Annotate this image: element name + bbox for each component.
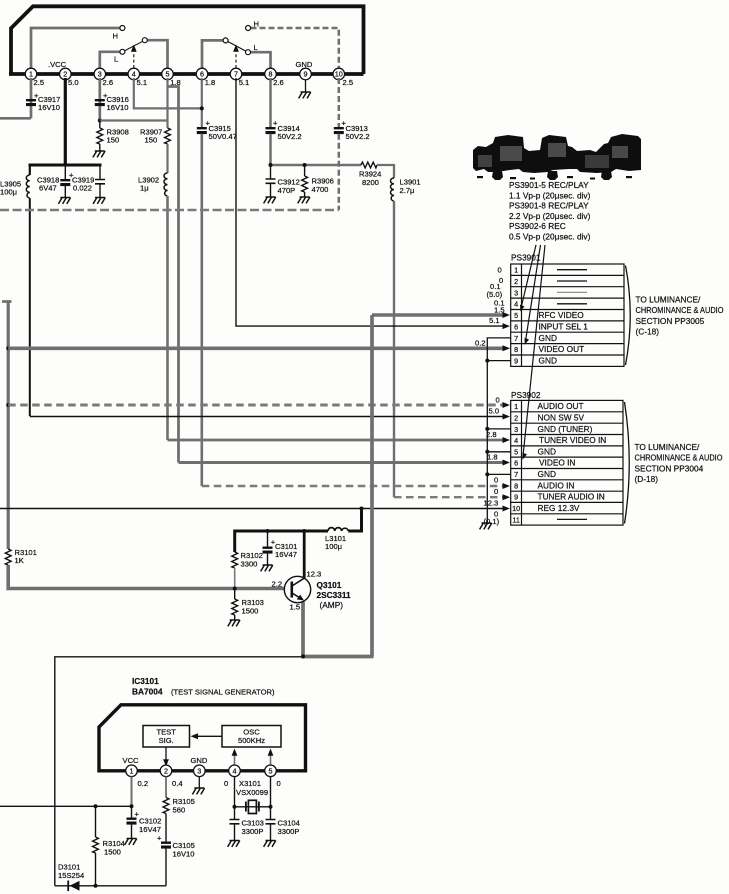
- svg-text:REG 12.3V: REG 12.3V: [538, 503, 580, 513]
- svg-text:12.3: 12.3: [307, 570, 322, 579]
- switch S1 pivot contact: [142, 38, 147, 43]
- wire: C3918/C3919 top rail (thick): [29, 164, 102, 167]
- wire: C3914 to y165 rail (grey): [269, 134, 272, 165]
- svg-text:VIDEO IN: VIDEO IN: [539, 458, 575, 468]
- svg-text:0: 0: [494, 476, 498, 485]
- wire: pin7 net drop and run to PS3901 pin6: [236, 78, 504, 326]
- pin 10: [333, 68, 345, 80]
- svg-text:BA7004: BA7004: [132, 687, 163, 697]
- svg-text:Q3101: Q3101: [317, 580, 342, 590]
- svg-text:5: 5: [166, 70, 170, 79]
- svg-text:7: 7: [234, 70, 238, 79]
- wire: PS3902 pin5 GND stub: [487, 451, 510, 453]
- pin 9: [300, 68, 312, 80]
- wire: junction to pin5 line (grey): [100, 119, 168, 121]
- wire: switch2 L contact to pin8 riser (grey): [250, 52, 270, 70]
- svg-text:5: 5: [514, 311, 518, 320]
- node: R3906 junction: [303, 163, 307, 167]
- svg-text:50V0.47: 50V0.47: [209, 132, 237, 141]
- svg-text:GND: GND: [539, 333, 557, 343]
- IC3101 pin 4: [229, 765, 241, 777]
- svg-text:(5.0): (5.0): [487, 290, 503, 299]
- wire: pin5 branch to x178.5 (grey): [168, 87, 179, 463]
- svg-text:8200: 8200: [362, 178, 379, 187]
- switch S1 actuator dashed arrow (pin4): [133, 48, 135, 68]
- svg-text:100μ: 100μ: [325, 542, 342, 551]
- wire: VIDEO OUT run to PS3901 pin8 (grey): [8, 346, 504, 350]
- capacitor C3918: [64, 165, 66, 179]
- wire: Q3101 emitter drop (grey): [301, 602, 305, 657]
- svg-text:6: 6: [514, 322, 518, 331]
- pin 1: [25, 68, 37, 80]
- wire: PS3901 pin7 GND to vertical ground bus: [487, 338, 510, 523]
- svg-text:0.2: 0.2: [475, 338, 486, 347]
- wire: AUDIO OUT run to PS3902 pin1 (grey dashed): [8, 404, 504, 407]
- svg-text:VCC: VCC: [123, 756, 140, 765]
- svg-text:GND: GND: [538, 446, 556, 456]
- switch S2 pivot contact: [223, 38, 228, 43]
- svg-text:9: 9: [304, 70, 308, 79]
- connector PS3902 body: [511, 400, 623, 525]
- ground under R3908: [93, 151, 105, 157]
- svg-text:1500: 1500: [242, 607, 259, 616]
- svg-text:0: 0: [277, 779, 281, 788]
- wire: pin1 drop (grey): [131, 777, 133, 807]
- svg-text:1.8: 1.8: [487, 452, 498, 461]
- capacitor C3915: [197, 127, 207, 134]
- IC3101 pin 3: [194, 765, 206, 777]
- svg-text:8: 8: [514, 481, 518, 490]
- svg-text:2: 2: [514, 413, 518, 422]
- pin 5: [162, 68, 174, 80]
- svg-text:4: 4: [132, 70, 136, 79]
- capacitor C3101: [267, 531, 269, 547]
- svg-text:2: 2: [63, 70, 67, 79]
- svg-text:SECTION PP3004: SECTION PP3004: [635, 463, 704, 473]
- wire: RFC VIDEO run from Q3101 emitter loop to PS3901 pin5 (grey): [372, 313, 504, 317]
- svg-text:(0.1): (0.1): [484, 517, 500, 526]
- svg-text:GND (TUNER): GND (TUNER): [538, 424, 593, 434]
- inductor L3901: [391, 178, 395, 201]
- pin 8: [265, 68, 277, 80]
- crystal X3101: [246, 800, 259, 813]
- svg-text:1μ: 1μ: [140, 184, 149, 193]
- node: test-signal injection at emitter loop: [301, 655, 305, 659]
- switch S1 contact L: [120, 49, 125, 54]
- svg-text:CHROMINANCE & AUDIO: CHROMINANCE & AUDIO: [635, 453, 723, 463]
- PS3902 row11 dash: [557, 518, 587, 520]
- svg-text:50V2.2: 50V2.2: [346, 132, 370, 141]
- svg-text:IC3101: IC3101: [132, 676, 159, 686]
- svg-text:X3101: X3101: [239, 779, 261, 788]
- PS3902 pin numbers: [512, 402, 520, 524]
- node: pin9 gnd junction: [485, 359, 489, 363]
- svg-text:5.0: 5.0: [489, 406, 500, 415]
- svg-text:0.5 Vp-p (20μsec. div): 0.5 Vp-p (20μsec. div): [509, 232, 591, 242]
- svg-text:5: 5: [514, 447, 518, 456]
- svg-text:1: 1: [514, 402, 518, 411]
- svg-text:3300P: 3300P: [242, 827, 264, 836]
- svg-text:0: 0: [224, 779, 228, 788]
- wire: PS3902 pin7 GND stub: [487, 473, 510, 475]
- svg-text:4: 4: [514, 436, 518, 445]
- svg-text:16V10: 16V10: [38, 103, 60, 112]
- PS3901 unused row dashes: [557, 270, 587, 304]
- wire: pin2 drop (thick): [64, 78, 67, 165]
- pin 3: [94, 68, 106, 80]
- svg-text:5.1: 5.1: [239, 78, 250, 87]
- svg-text:1.8: 1.8: [205, 78, 216, 87]
- resistor R3908: [99, 121, 101, 129]
- svg-text:8: 8: [514, 345, 518, 354]
- svg-text:50V2.2: 50V2.2: [278, 132, 302, 141]
- callout line to PS3902 pin6: [523, 245, 545, 456]
- svg-text:(AMP): (AMP): [320, 600, 344, 610]
- ground under pin 9: [305, 80, 307, 92]
- wire: pin3 drop through C3916 (grey): [98, 78, 101, 121]
- resistor R3102: [232, 552, 238, 568]
- node: VIDEO OUT tap: [6, 346, 10, 350]
- wire: D3101 branch line: [55, 885, 166, 887]
- svg-text:100μ: 100μ: [0, 188, 17, 197]
- svg-text:4: 4: [514, 300, 518, 309]
- callout line to PS3901 pin5: [521, 245, 536, 308]
- svg-text:PS3901-8 REC/PLAY: PS3901-8 REC/PLAY: [509, 201, 589, 211]
- svg-text:470P: 470P: [278, 186, 296, 195]
- wire: R3924 to L3901 corner (grey): [377, 165, 394, 178]
- svg-text:560: 560: [173, 806, 186, 815]
- svg-text:SIG.: SIG.: [159, 736, 174, 745]
- ground at bottom of connector ground bus: [480, 523, 492, 529]
- wire: switch1 pivot to pin5 riser (grey): [147, 40, 167, 70]
- node: C3912 junction: [269, 163, 273, 167]
- svg-text:500KHz: 500KHz: [238, 736, 265, 745]
- switch S1 arm: [125, 41, 143, 50]
- wire: 5.0V run to PS3902 pin2: [30, 416, 504, 418]
- svg-text:2.2 Vp-p (20μsec. div): 2.2 Vp-p (20μsec. div): [509, 211, 591, 221]
- wire: y165 rail from pin8 line to R3924 (grey): [271, 164, 362, 167]
- node: AUDIO OUT tap: [6, 403, 10, 407]
- capacitor C3916: [95, 99, 105, 106]
- svg-text:16V47: 16V47: [275, 550, 297, 559]
- pin 4: [128, 68, 140, 80]
- wire: pin2 drop to R3105 (grey): [165, 777, 167, 798]
- svg-text:SECTION PP3005: SECTION PP3005: [636, 316, 705, 326]
- svg-text:2.6: 2.6: [273, 78, 284, 87]
- svg-text:1: 1: [514, 266, 518, 275]
- pin 2: [60, 68, 72, 80]
- IC3101 pin 1: [126, 765, 138, 777]
- svg-text:PS3901: PS3901: [511, 252, 541, 262]
- wire: R3907 to L3902 (grey): [166, 144, 168, 173]
- svg-text:1: 1: [130, 767, 134, 776]
- svg-text:(C-18): (C-18): [636, 327, 660, 337]
- connector PS3901 housing bracket: [626, 266, 631, 366]
- capacitor C3919: [99, 165, 101, 180]
- svg-text:5.0: 5.0: [68, 78, 79, 87]
- resistor R3103: [234, 589, 236, 600]
- wire: pin10 drop through C3913 (grey dashed): [338, 78, 341, 127]
- wire: pin6 drop through C3915 (grey): [201, 78, 203, 127]
- svg-text:5: 5: [269, 767, 273, 776]
- wire: VCC feed line from page left: [0, 805, 132, 807]
- svg-text:4: 4: [233, 767, 237, 776]
- node: base bias junction: [233, 587, 237, 591]
- pin 7: [230, 68, 242, 80]
- svg-text:2.7μ: 2.7μ: [400, 186, 415, 195]
- TEST SIG block: [143, 726, 190, 748]
- svg-text:H: H: [113, 32, 118, 41]
- wire: switch2 H contact to pin10 riser (grey dashed): [251, 28, 339, 70]
- node: collector junction: [302, 529, 306, 533]
- node: collector feed tap on 12.3V line: [360, 507, 364, 511]
- node: C3101 tap: [266, 529, 270, 533]
- svg-text:AUDIO OUT: AUDIO OUT: [538, 401, 584, 411]
- wire: pin bus horizontal: [9, 72, 364, 76]
- capacitor C3914: [266, 127, 276, 134]
- svg-text:(D-18): (D-18): [635, 474, 659, 484]
- svg-text:TUNER AUDIO IN: TUNER AUDIO IN: [538, 492, 605, 502]
- ground at IC3101 pin3: [198, 777, 200, 788]
- svg-text:2.6: 2.6: [103, 78, 114, 87]
- wire: C3917 bottom to left page edge (grey): [0, 117, 31, 120]
- svg-text:1500: 1500: [104, 848, 121, 857]
- svg-text:5.1: 5.1: [489, 316, 500, 325]
- node: R3104 bottom junction: [94, 884, 98, 888]
- svg-text:(TEST SIGNAL GENERATOR): (TEST SIGNAL GENERATOR): [171, 688, 275, 697]
- IC3101 pin 5: [265, 765, 277, 777]
- switch S2 contact L: [246, 50, 251, 55]
- svg-text:1.1 Vp-p (20μsec. div): 1.1 Vp-p (20μsec. div): [509, 190, 591, 200]
- svg-text:9: 9: [514, 493, 518, 502]
- switch S2 contact H: [246, 26, 251, 31]
- svg-text:VIDEO OUT: VIDEO OUT: [539, 344, 585, 354]
- inductor L3905 in pin2 net: [29, 165, 31, 175]
- svg-text:6: 6: [514, 459, 518, 468]
- svg-text:GND: GND: [538, 469, 556, 479]
- wire: pin1 riser to H contact (grey): [31, 28, 120, 70]
- svg-text:1K: 1K: [15, 556, 24, 565]
- svg-text:16V10: 16V10: [107, 103, 129, 112]
- wire: L3905 down to 5.0V corner: [29, 198, 31, 416]
- svg-text:2SC3311: 2SC3311: [317, 590, 352, 600]
- svg-text:INPUT SEL 1: INPUT SEL 1: [539, 321, 589, 331]
- svg-text:3: 3: [514, 288, 518, 297]
- svg-text:3: 3: [98, 70, 102, 79]
- svg-text:PS3901-5 REC/PLAY: PS3901-5 REC/PLAY: [509, 180, 589, 190]
- svg-text:0: 0: [496, 395, 500, 404]
- wire: emitter loop bottom (grey): [302, 655, 374, 659]
- arrow TEST SIG to pin2: [165, 747, 167, 764]
- resistor R3906: [304, 165, 306, 176]
- PS3901 pin numbers: [514, 266, 518, 366]
- wire: test signal line from IC3101 to emitter loop: [55, 657, 301, 886]
- wire: collector supply rail (thick): [235, 531, 328, 552]
- IC3101 block outline: [99, 705, 306, 771]
- capacitor C3912: [270, 165, 272, 179]
- wire: pin5 drop (grey): [166, 78, 168, 128]
- switch S2 arm: [228, 42, 246, 52]
- pin 6: [196, 68, 208, 80]
- wire: left grey bus vertical x8: [7, 302, 10, 550]
- wire: pin1 drop through C3917 (grey): [30, 78, 33, 118]
- svg-text:7: 7: [514, 334, 518, 343]
- svg-text:L: L: [114, 55, 118, 64]
- wire: VIDEO IN run to PS3902 pin6 (grey): [179, 461, 505, 464]
- svg-text:150: 150: [107, 136, 120, 145]
- wire: switch2 pivot to pin6 riser (grey): [202, 40, 223, 70]
- svg-text:GND: GND: [296, 60, 313, 69]
- svg-text:15S254: 15S254: [58, 871, 84, 880]
- svg-text:4700: 4700: [312, 185, 329, 194]
- wire: PS3902 pin3 GND stub: [487, 428, 510, 430]
- svg-text:2.5: 2.5: [34, 78, 45, 87]
- wire: pin5 drop to crystal line: [270, 777, 272, 807]
- arrow OSC to TEST SIG: [194, 735, 223, 737]
- svg-text:2.2: 2.2: [272, 580, 283, 589]
- svg-text:3: 3: [514, 425, 518, 434]
- svg-text:0: 0: [498, 265, 502, 274]
- svg-text:CHROMINANCE & AUDIO: CHROMINANCE & AUDIO: [636, 305, 724, 315]
- wire: TUNER AUDIO IN run to PS3902 pin9 (grey dashed): [394, 496, 504, 498]
- IC block thick border (top): [11, 6, 364, 74]
- svg-text:AUDIO IN: AUDIO IN: [538, 480, 575, 490]
- svg-text:150: 150: [145, 136, 158, 145]
- capacitor C3913: [334, 127, 344, 134]
- svg-text:TUNER VIDEO IN: TUNER VIDEO IN: [539, 435, 606, 445]
- svg-text:2: 2: [514, 277, 518, 286]
- svg-text:0.4: 0.4: [172, 779, 183, 788]
- svg-text:PS3902-6 REC: PS3902-6 REC: [509, 221, 566, 231]
- IC3101 pin 2: [160, 765, 172, 777]
- svg-text:9: 9: [514, 357, 518, 366]
- wire: PS3901 pin9 GND stub: [487, 360, 510, 362]
- inductor L3902: [164, 173, 168, 196]
- wire: pin8 drop through C3914 (grey): [269, 78, 272, 127]
- node: R3104 tap: [94, 804, 98, 808]
- wire: C3913 down to grey rail y210 (grey dashed): [338, 134, 341, 210]
- svg-text:0.022: 0.022: [73, 184, 92, 193]
- svg-text:1.5: 1.5: [290, 603, 301, 612]
- capacitor C3103: [234, 807, 236, 820]
- svg-text:+: +: [157, 834, 162, 843]
- OSC block: [222, 726, 281, 748]
- resistor R3907: [165, 128, 171, 144]
- svg-text:3300: 3300: [241, 560, 258, 569]
- grey signal rail y210 (to page left): [0, 209, 339, 212]
- svg-text:11: 11: [512, 515, 519, 524]
- resistor R3924 (horizontal): [361, 162, 377, 168]
- wire: L3901 down to PS3902 row9 corner (grey): [393, 201, 395, 497]
- svg-text:GND: GND: [191, 756, 208, 765]
- resistor R3105: [163, 798, 169, 814]
- node: pin4 jog joins pin6 line: [200, 106, 204, 110]
- arrow pin4 to OSC: [234, 752, 236, 771]
- svg-text:6V47: 6V47: [39, 184, 57, 193]
- switch S1 contact H: [120, 26, 125, 31]
- wire: emitter loop vertical (grey): [370, 315, 374, 657]
- wire: TUNER VIDEO IN run to PS3902 pin4 (grey): [168, 439, 505, 442]
- switch S2 actuator dashed arrow (pin7): [235, 48, 237, 68]
- wire: R3101 to base-line corner (grey): [8, 565, 285, 589]
- svg-text:5.1: 5.1: [137, 78, 148, 87]
- svg-text:H: H: [254, 20, 259, 29]
- capacitor C3917: [26, 99, 36, 106]
- wire: pin3 riser to L contact (grey): [100, 52, 120, 70]
- wire: pin4 drop and jog right (grey): [134, 78, 202, 108]
- node: pin3/R3908 junction: [98, 119, 102, 123]
- wire: crystal link: [235, 806, 271, 808]
- wire: left grey bus stub at top: [2, 300, 12, 303]
- svg-text:1: 1: [29, 70, 33, 79]
- svg-text:3300P: 3300P: [278, 827, 300, 836]
- connector PS3901 body: [511, 264, 624, 366]
- svg-text:0: 0: [494, 487, 498, 496]
- wire: AUDIO IN run to PS3902 pin8 (grey dashed): [202, 485, 504, 488]
- svg-text:L: L: [254, 43, 258, 52]
- svg-text:10: 10: [512, 504, 520, 513]
- svg-text:2: 2: [164, 767, 168, 776]
- svg-text:TO LUMINANCE/: TO LUMINANCE/: [635, 442, 701, 452]
- resistor R3104: [95, 806, 97, 837]
- waveform oscillogram photo: [473, 134, 641, 180]
- arrow pin5 to OSC: [270, 752, 272, 771]
- capacitor C3102: [131, 806, 133, 817]
- transistor Q3101: [284, 576, 310, 602]
- node: pin1/C3102 junction: [130, 804, 134, 808]
- svg-text:7: 7: [514, 470, 518, 479]
- resistor R3101: [5, 549, 11, 565]
- wire: collector drop (thick): [303, 531, 306, 578]
- svg-text:0.2: 0.2: [138, 779, 149, 788]
- diode D3101: [67, 881, 69, 892]
- wire: L3902 down to PS3902 row4 corner (grey): [166, 196, 169, 440]
- wire: pin4 drop to crystal line: [234, 777, 236, 807]
- wire: C3915 down to PS3902 row8 corner (grey): [201, 134, 204, 486]
- svg-text:3: 3: [197, 767, 201, 776]
- svg-text:12.3: 12.3: [484, 498, 499, 507]
- capacitor C3105: [161, 842, 171, 849]
- svg-text:GND: GND: [539, 356, 557, 366]
- connector PS3902 housing bracket: [625, 402, 630, 524]
- svg-text:2.5: 2.5: [343, 78, 354, 87]
- svg-text:RFC VIDEO: RFC VIDEO: [539, 310, 585, 320]
- inductor L3101: [328, 528, 348, 531]
- svg-text:PS3902: PS3902: [511, 390, 541, 400]
- wire: L3101 to 12.3V tap (thick): [348, 509, 361, 532]
- svg-text:6: 6: [200, 70, 204, 79]
- svg-text:NON SW 5V: NON SW 5V: [538, 412, 585, 422]
- svg-text:TO LUMINANCE/: TO LUMINANCE/: [636, 295, 702, 305]
- capacitor C3104: [270, 807, 272, 820]
- callout line to PS3901 pin8: [526, 245, 541, 341]
- svg-text:VSX0099: VSX0099: [236, 788, 268, 797]
- svg-text:.VCC: .VCC: [48, 60, 67, 69]
- svg-text:16V10: 16V10: [173, 850, 195, 859]
- wire: REG 12.3V run to PS3902 pin10: [0, 508, 504, 510]
- svg-text:8: 8: [269, 70, 273, 79]
